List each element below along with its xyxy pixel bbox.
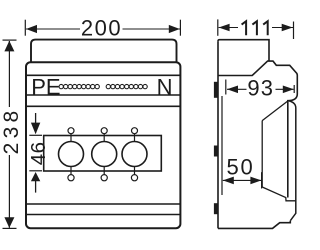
dimension 238 bottom tick [3,227,17,229]
dimension 93 extension line left [225,80,227,95]
wall tab 3 [214,203,219,214]
terminal strip bottom line [26,94,180,96]
side view lid top-left corner joining back edge [218,40,220,42]
dimension 46 top tick [29,134,42,136]
N terminal circles group 2 [106,84,147,88]
dimension 50 arrow right [250,177,261,185]
svg-text:93: 93 [247,75,274,100]
gland plate rectangle [44,136,162,172]
dimension 46 arrow up [31,172,40,181]
svg-text:N: N [157,74,173,99]
dimension 46 bottom tick [29,170,42,172]
gland column 3 stem bottom [134,158,136,175]
gland column 2 stem top [103,134,105,145]
dimension 50 arrow left [223,177,234,185]
dimension 238 line lower segment [8,155,10,228]
front view body [26,62,180,228]
dimension 111 extension line right [293,22,295,40]
dimension 200 extension line right [179,20,181,36]
dimension 111 line right segment [272,27,293,29]
gland 1 small top circle [68,128,74,134]
dimension 93 arrow right [283,86,294,94]
gland 2 big circle [92,142,117,167]
gland 3 small bottom circle [131,175,137,181]
dimension 200 extension line left [24,20,26,36]
dimension 111 label [242,21,268,35]
terminal strip top line [26,74,180,76]
svg-text:200: 200 [81,15,122,40]
dimension 46 arrow down [31,123,40,135]
svg-text:PE: PE [31,75,60,100]
dimension 111 arrow left [219,24,230,32]
dimension 50 line [223,179,262,181]
dimension 238 arrow down [4,217,14,228]
gland column 1 stem top [70,134,72,145]
window inner left edge [261,121,263,187]
dimension 238 line upper segment [8,41,10,107]
svg-text:50: 50 [226,154,254,179]
dimension 93 line right segment [276,88,294,90]
gland column 3 stem top [134,134,136,145]
front view lower line 1 [26,203,180,205]
dimension 50 extension line right [261,172,263,188]
wall tab 1 [214,82,219,98]
side view outline [218,40,297,229]
dimension 111 line left segment [219,27,238,29]
window outer face [289,101,296,221]
dimension 200 line right segment [123,28,181,30]
dimension 93 line left segment [227,88,247,90]
dimension 200 line left segment [26,28,80,30]
gland 3 big circle [122,142,147,167]
horizontal line below strip [26,105,180,107]
svg-text:46: 46 [27,141,50,165]
wall tab 2 [214,146,219,157]
dimension 200 arrow right [169,25,180,33]
dimension 46 lower stem [35,181,37,193]
front view lid [31,40,177,63]
dimension 93 arrow left [227,86,238,94]
gland 2 small top circle [101,128,107,134]
dimension 111 arrow right [282,24,293,32]
gland 3 small top circle [132,128,138,134]
dimension 238 arrow up [4,41,14,52]
inner wall line [221,96,223,195]
window inner edge top slant [262,101,288,121]
dimension 111 extension line left [217,19,219,35]
dimension 93 extension line right [293,85,295,93]
svg-text:238: 238 [0,107,23,155]
window inner bottom slant and step [262,187,296,201]
gland 2 small bottom circle [101,175,107,181]
dimension 200 arrow left [26,25,37,33]
gland 1 big circle [59,142,84,167]
gland column 2 stem bottom [103,158,105,175]
dimension 46 upper stem [35,113,37,125]
PE terminal circles group 1 [59,84,99,88]
front view lower line 2 [26,214,180,216]
gland 1 small bottom circle [68,175,74,181]
dimension 238 top tick [3,39,17,41]
gland column 1 stem bottom [70,158,72,175]
